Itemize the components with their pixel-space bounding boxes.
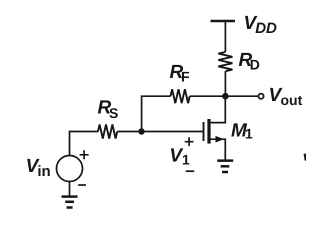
wire gate: [117, 131, 202, 133]
wire RF left segment: [142, 96, 171, 131]
svg-text:out: out: [281, 92, 303, 108]
ground under M1 source: [217, 159, 233, 162]
terminal Vout: [258, 94, 263, 99]
minus sign V1: [186, 170, 195, 172]
edge fragment: [304, 153, 306, 161]
svg-text:S: S: [109, 105, 118, 121]
plus sign Vin: [80, 150, 89, 159]
wire drain: [210, 99, 226, 123]
node gate junction: [138, 128, 144, 134]
resistor RS: [98, 125, 117, 139]
svg-text:in: in: [37, 163, 50, 180]
wire RD to node: [224, 71, 226, 96]
ground under Vin: [62, 195, 78, 198]
svg-text:D: D: [250, 57, 260, 73]
supply bar VDD: [211, 20, 236, 23]
transistor M1 channel bar: [207, 119, 210, 144]
transistor M1 gate bar: [203, 122, 205, 141]
wire source: [210, 139, 226, 159]
source voltage Vin: [57, 156, 83, 182]
wire RF to node: [190, 95, 226, 97]
resistor RD: [218, 52, 232, 71]
minus sign Vin: [78, 184, 86, 186]
wire VDD to RD: [224, 22, 226, 52]
svg-text:F: F: [181, 69, 190, 85]
node drain junction: [222, 93, 229, 100]
wire Vin up and RS left lead: [70, 132, 99, 156]
wire Vin to ground: [69, 182, 71, 196]
svg-text:1: 1: [245, 126, 253, 142]
plus sign V1: [185, 137, 194, 146]
resistor RF: [171, 89, 190, 103]
wire node to Vout: [225, 95, 258, 97]
svg-text:1: 1: [182, 152, 190, 168]
arrow source: [216, 136, 224, 143]
svg-text:DD: DD: [255, 20, 277, 37]
